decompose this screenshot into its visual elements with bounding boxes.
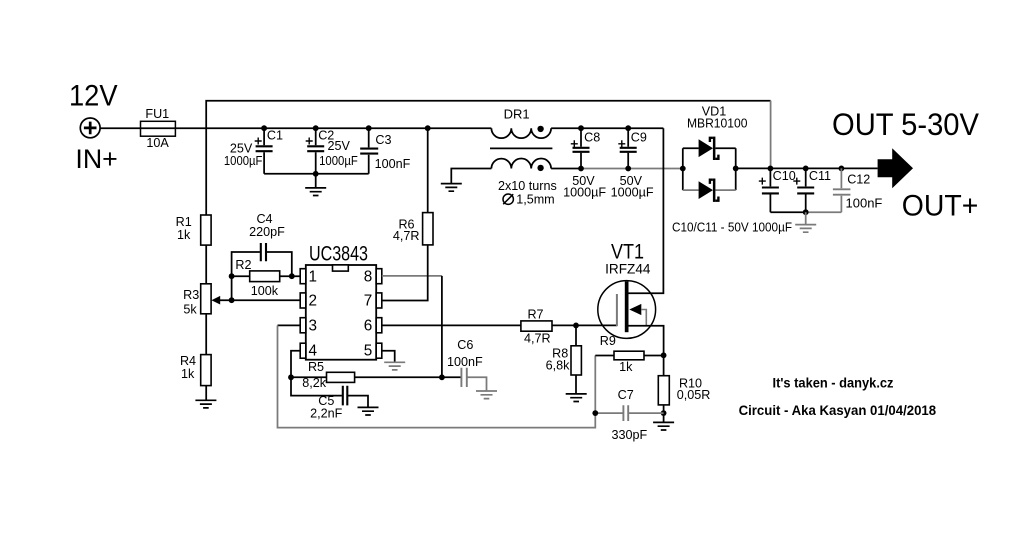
svg-text:UC3843: UC3843 [309, 243, 368, 266]
wire output cap bottom bus [770, 211, 805, 213]
capacitor C11 [805, 168, 807, 212]
node bus ground [803, 209, 809, 215]
svg-text:C12: C12 [847, 173, 870, 187]
svg-text:It's taken - danyk.cz: It's taken - danyk.cz [773, 376, 894, 391]
node C9 bottom [625, 166, 631, 172]
ground under C5 [358, 407, 379, 415]
wire pin 3 stub [278, 324, 301, 326]
OUT arrow [878, 148, 913, 188]
svg-text:1k: 1k [181, 367, 195, 381]
svg-text:5k: 5k [183, 302, 197, 316]
node R2 left [229, 273, 235, 279]
ground at DR1 [441, 184, 462, 192]
diode VD1 bottom element [699, 179, 719, 202]
svg-text:OUT+: OUT+ [902, 189, 979, 222]
wire pin 8 vertical to R5 node [441, 276, 443, 377]
svg-text:R9: R9 [600, 334, 616, 348]
svg-text:IRFZ44: IRFZ44 [605, 262, 650, 278]
wire rail DR1 to drain corner [551, 127, 663, 129]
svg-text:4: 4 [309, 343, 318, 360]
svg-text:1000µF: 1000µF [319, 154, 358, 168]
pin 2 box [300, 293, 306, 308]
wire R8 drop [575, 325, 577, 393]
node C3 top [366, 125, 372, 131]
wire pin 3 gray route to current sense [278, 325, 596, 427]
svg-text:220pF: 220pF [249, 225, 285, 239]
node C9 top [625, 125, 631, 131]
plus sign C9 [618, 140, 625, 147]
node R2 right [289, 273, 295, 279]
wire VT1 source to R9/R10 node [629, 326, 664, 356]
ground under R4 [195, 400, 216, 408]
node C11 top [803, 166, 809, 172]
wire R2 branch [232, 275, 301, 277]
pin 4 box [300, 343, 306, 358]
svg-text:1k: 1k [619, 360, 633, 374]
node R10 bottom [661, 410, 667, 416]
node C1 top [261, 125, 267, 131]
capacitor C12 (gray) [840, 168, 842, 212]
node source/R9/R10 [661, 352, 667, 358]
svg-text:5: 5 [364, 343, 373, 360]
ground under R8 [566, 394, 587, 402]
wire R5 line [291, 376, 442, 378]
svg-text:12V: 12V [69, 79, 118, 112]
svg-text:C9: C9 [631, 130, 647, 144]
wire pin 8 gray stub [382, 275, 442, 277]
svg-text:1000µF: 1000µF [224, 154, 263, 168]
svg-text:R4: R4 [180, 354, 196, 368]
svg-text:OUT 5-30V: OUT 5-30V [832, 106, 979, 142]
wire gray drop from bypass rail to output node [770, 101, 772, 169]
svg-text:IN+: IN+ [75, 144, 117, 174]
DR1 top winding polarity dot [537, 126, 543, 132]
capacitor C4 loop [232, 252, 292, 276]
svg-text:C7: C7 [618, 388, 634, 402]
wire wiper node to R2 node [231, 276, 233, 300]
capacitor C8 [580, 128, 582, 168]
capacitor C7 (gray) [595, 412, 663, 414]
svg-text:C6: C6 [457, 338, 473, 352]
ground under output bus (gray) [805, 212, 807, 224]
svg-text:100k: 100k [251, 284, 279, 298]
inductor DR1 top winding [491, 128, 551, 138]
svg-text:R3: R3 [183, 288, 199, 302]
resistor R2 [250, 271, 280, 282]
node C8 bottom [578, 166, 584, 172]
svg-text:100nF: 100nF [447, 355, 483, 369]
svg-text:VT1: VT1 [611, 240, 644, 263]
ground under R10 [663, 413, 665, 422]
transistor Q1 VT1 IRFZ44 [598, 281, 656, 339]
inductor DR1 bottom winding [491, 159, 551, 169]
ground under C2 [315, 174, 317, 188]
resistor R5 [327, 372, 355, 382]
svg-text:C10/C11 - 50V 1000µF: C10/C11 - 50V 1000µF [672, 220, 792, 234]
R3 wiper arrow [220, 299, 300, 301]
capacitor C6 branch [442, 376, 461, 378]
svg-text:Circuit - Aka Kasyan 01/04/201: Circuit - Aka Kasyan 01/04/2018 [739, 402, 937, 418]
svg-text:3: 3 [309, 317, 318, 334]
wire input to fuse and main 12V rail [100, 127, 491, 129]
capacitor C5 branch [291, 377, 368, 407]
node C12 top [839, 166, 845, 172]
svg-text:DR1: DR1 [504, 106, 530, 121]
svg-text:1: 1 [309, 268, 318, 285]
svg-text:0,05R: 0,05R [677, 388, 711, 402]
plus sign C2 [306, 138, 313, 145]
pin 6 box [376, 318, 382, 333]
svg-text:1k: 1k [177, 228, 191, 242]
wire R10 drop [663, 355, 665, 413]
wire secondary line to C8 [551, 168, 581, 170]
svg-text:C1: C1 [267, 129, 283, 143]
svg-text:R2: R2 [235, 258, 251, 272]
resistor R9 [614, 351, 644, 360]
diameter symbol [503, 194, 513, 204]
svg-text:R7: R7 [527, 307, 543, 321]
svg-text:2: 2 [309, 293, 318, 310]
resistor R1 [201, 215, 211, 245]
node R5 right / pin8 node [439, 374, 445, 380]
wire DR1 bottom left to ground [451, 169, 491, 184]
svg-text:2x10 turns: 2x10 turns [498, 179, 557, 193]
svg-text:C10: C10 [773, 169, 796, 183]
resistor R6 [423, 213, 433, 245]
op-amp controller U1 UC3843 body [306, 265, 376, 360]
svg-text:1,5mm: 1,5mm [516, 192, 555, 206]
svg-text:1000µF: 1000µF [563, 185, 606, 199]
wire pin 6 gate line [382, 324, 617, 326]
capacitor C1 [263, 128, 265, 174]
wire pin 5 to ground [382, 351, 395, 362]
DR1 bottom winding polarity dot [537, 165, 543, 171]
svg-text:6: 6 [364, 317, 373, 334]
ground under C6 (gray) [476, 391, 497, 399]
wire output line [736, 167, 878, 169]
svg-text:1000µF: 1000µF [611, 185, 654, 199]
svg-text:25V: 25V [328, 139, 351, 153]
node R5 left [288, 374, 294, 380]
svg-text:FU1: FU1 [145, 107, 169, 121]
wire R9 line [595, 355, 663, 357]
svg-text:100nF: 100nF [846, 196, 883, 211]
ground at pin 5 (gray) [384, 362, 405, 370]
resistor R4 [201, 355, 211, 386]
wire pin 7 to R6 [382, 128, 428, 300]
UC3843 notch [333, 265, 349, 271]
fuse FU1 [141, 121, 176, 136]
diode VD1 bracket [683, 148, 736, 190]
resistor R7 [521, 321, 552, 331]
wire R1-R3-R4 divider chain [205, 128, 207, 400]
svg-text:R5: R5 [308, 360, 324, 374]
node R6 top [425, 125, 431, 131]
input terminal (circle with plus) [80, 118, 100, 138]
svg-text:4,7R: 4,7R [524, 332, 551, 346]
node C10 top [768, 166, 774, 172]
wire VT1 drain vertical [627, 128, 663, 293]
svg-text:10A: 10A [146, 136, 169, 150]
capacitor C2 [315, 128, 317, 174]
node VD1 cathode [733, 166, 739, 172]
resistor R8 [571, 346, 581, 375]
svg-text:MBR10100: MBR10100 [687, 116, 748, 130]
capacitor C3 [368, 128, 370, 174]
diode VD1 top element [699, 137, 719, 160]
svg-text:C3: C3 [375, 133, 391, 147]
svg-text:7: 7 [364, 293, 373, 310]
plus sign C10 [759, 178, 766, 185]
DR1 core [490, 147, 552, 149]
node C8 top [578, 125, 584, 131]
potentiometer R3 [201, 284, 211, 314]
svg-text:2,2nF: 2,2nF [310, 406, 343, 420]
svg-text:C8: C8 [584, 130, 600, 144]
wire C1-C2-C3 bottom bus [264, 173, 369, 175]
wire secondary line gray to VD1 [581, 168, 683, 170]
pin 8 box [376, 269, 382, 284]
svg-text:8: 8 [364, 268, 373, 285]
pin 3 box [300, 318, 306, 333]
svg-text:C11: C11 [809, 169, 831, 183]
node R7 right / R8 top [573, 323, 579, 329]
svg-text:8,2k: 8,2k [302, 376, 327, 390]
node C2 top [313, 125, 319, 131]
plus sign C8 [571, 140, 578, 147]
node C2 bottom [313, 171, 319, 177]
pin 7 box [376, 293, 382, 308]
node VD1 anode [680, 166, 686, 172]
wire pin 4 to R5 [291, 351, 300, 378]
node C7 left [592, 410, 598, 416]
pin 5 box [376, 343, 382, 358]
capacitor C10 [769, 168, 771, 212]
svg-text:4,7R: 4,7R [393, 229, 420, 243]
svg-text:330pF: 330pF [612, 428, 648, 442]
plus sign C11 [793, 178, 800, 185]
resistor R10 [658, 376, 669, 405]
capacitor C9 [627, 128, 629, 168]
wire top bypass rail [206, 101, 770, 129]
plus sign C1 [255, 138, 262, 145]
svg-text:6,8k: 6,8k [546, 358, 571, 372]
node wiper [229, 297, 235, 303]
svg-text:100nF: 100nF [375, 157, 411, 171]
pin 1 box [300, 269, 306, 284]
